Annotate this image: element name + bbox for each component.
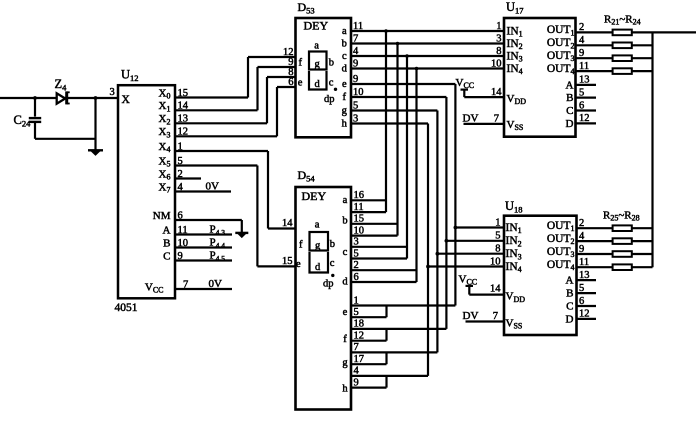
diode Z4 (zener) bbox=[57, 91, 70, 104]
wire: segment-e bus vertical bbox=[454, 84, 456, 306]
pin 6 of D53 (left) bbox=[277, 86, 296, 88]
resistor R22 bbox=[577, 44, 613, 46]
wire: X1 to D53 pin 9 bbox=[175, 109, 258, 111]
7-segment icon of D53 bbox=[298, 41, 337, 106]
wire: segment-a bus vertical bbox=[385, 31, 387, 212]
svg-text:DV: DV bbox=[463, 310, 479, 322]
wire: X3 to D53 pin 6 bbox=[175, 135, 277, 137]
svg-text:C: C bbox=[566, 301, 573, 313]
wire: segment-h bus vertical bbox=[427, 124, 429, 376]
wire: segment-g bus vertical bbox=[436, 111, 438, 353]
wire: segment-b bus vertical bbox=[396, 44, 398, 236]
svg-text:3: 3 bbox=[496, 33, 501, 44]
svg-text:0V: 0V bbox=[209, 278, 223, 290]
svg-text:e: e bbox=[296, 259, 301, 270]
wire: C to P4.5 bbox=[175, 259, 232, 261]
svg-text:A: A bbox=[163, 224, 171, 236]
wire: h-bus to IN4 of U18 bbox=[428, 265, 503, 267]
resistor R25 bbox=[577, 227, 613, 229]
svg-text:DV: DV bbox=[463, 112, 479, 124]
wire: B to P4.4 bbox=[175, 246, 232, 248]
svg-text:B: B bbox=[566, 92, 573, 104]
svg-text:OUT2: OUT2 bbox=[547, 37, 575, 50]
svg-text:OUT1: OUT1 bbox=[547, 24, 575, 37]
svg-text:g: g bbox=[342, 106, 348, 117]
svg-text:OUT2: OUT2 bbox=[547, 233, 575, 246]
wire: main input net from left edge to U12 pin X bbox=[0, 97, 118, 99]
svg-text:b: b bbox=[329, 58, 334, 69]
svg-text:a: a bbox=[343, 195, 348, 206]
svg-text:C: C bbox=[566, 105, 573, 117]
svg-text:h: h bbox=[342, 384, 348, 395]
wire: X5 to D54 pin 15 bbox=[175, 164, 257, 166]
svg-text:f: f bbox=[343, 92, 347, 103]
svg-text:15: 15 bbox=[282, 256, 293, 267]
ground (near Z4/U12) bbox=[88, 149, 103, 151]
wire: e-bus to IN1 of U18 bbox=[455, 226, 503, 228]
resistor R24 bbox=[577, 70, 613, 72]
svg-text:D: D bbox=[566, 118, 574, 130]
svg-text:b: b bbox=[342, 216, 347, 227]
driver U18 box bbox=[504, 216, 577, 335]
svg-text:b: b bbox=[342, 39, 347, 50]
driver U17 box bbox=[504, 18, 576, 137]
capacitor C24 bbox=[29, 98, 41, 139]
svg-text:14: 14 bbox=[491, 87, 502, 98]
wire: resistor output bus vertical bbox=[651, 32, 653, 267]
svg-text:b: b bbox=[330, 239, 335, 250]
svg-text:1: 1 bbox=[496, 21, 501, 32]
wire: X4 to D54 pin 14 bbox=[175, 150, 268, 152]
pin 9 of D53 (left) bbox=[258, 66, 297, 68]
svg-text:g: g bbox=[342, 358, 348, 369]
wire: C24 bottom to ground drop bbox=[35, 138, 96, 140]
resistor R26 bbox=[577, 240, 613, 242]
svg-text:g: g bbox=[315, 240, 321, 251]
svg-text:h: h bbox=[342, 119, 348, 130]
svg-text:OUT4: OUT4 bbox=[547, 259, 575, 272]
svg-text:8: 8 bbox=[496, 46, 501, 57]
resistor R23 bbox=[577, 57, 613, 59]
pin 12 of D53 (left) bbox=[248, 56, 296, 58]
svg-text:7: 7 bbox=[494, 113, 499, 124]
wire: X2 to D53 pin 8 bbox=[175, 122, 267, 124]
svg-text:NM: NM bbox=[153, 210, 171, 222]
svg-text:14: 14 bbox=[490, 284, 501, 295]
svg-text:X: X bbox=[122, 94, 131, 106]
svg-text:a: a bbox=[314, 41, 319, 52]
wire: A to P4.3 bbox=[175, 233, 232, 235]
node: junction at C24 top bbox=[33, 96, 37, 100]
resistor R27 bbox=[577, 253, 613, 255]
svg-text:OUT3: OUT3 bbox=[547, 50, 575, 63]
svg-text:B: B bbox=[566, 288, 573, 300]
ground (NM pin of U12) bbox=[235, 232, 248, 234]
svg-text:DEY: DEY bbox=[304, 19, 329, 33]
svg-text:A: A bbox=[566, 275, 574, 287]
svg-text:a: a bbox=[342, 26, 347, 37]
svg-text:c: c bbox=[329, 78, 334, 89]
display decoder D53 box bbox=[296, 18, 352, 137]
wire: VCC to pin 14 (VDD) of U18 bbox=[469, 294, 503, 296]
svg-text:dp: dp bbox=[323, 279, 334, 290]
node: bus junction dots on segment wires a-d bbox=[384, 29, 388, 33]
wire: NM to ground bbox=[175, 219, 242, 221]
svg-text:14: 14 bbox=[282, 218, 293, 229]
pin 8 of D53 (left) bbox=[267, 76, 296, 78]
wire: X0 to D53 pin 12 bbox=[175, 96, 248, 98]
wire: join pins 18+12 (segment f) bbox=[385, 329, 387, 341]
svg-text:10: 10 bbox=[491, 58, 502, 69]
wire: X7 to 0V bbox=[175, 190, 231, 192]
svg-text:c: c bbox=[330, 258, 335, 269]
wire: f-bus to IN2 of U18 bbox=[446, 240, 503, 242]
resistor R28 bbox=[577, 266, 613, 268]
resistor R21 bbox=[577, 31, 613, 33]
svg-text:0V: 0V bbox=[206, 180, 220, 192]
svg-text:f: f bbox=[343, 334, 347, 345]
op-amp U12 box (4051 multiplexer) bbox=[118, 85, 175, 298]
wire: g-bus to IN3 of U18 bbox=[437, 253, 503, 255]
svg-text:d: d bbox=[315, 79, 321, 90]
svg-text:d: d bbox=[342, 277, 348, 288]
wire: VCC to pin 14 (VDD) of U17 bbox=[464, 96, 504, 98]
svg-text:4051: 4051 bbox=[115, 302, 138, 314]
svg-text:a: a bbox=[315, 220, 320, 231]
svg-text:e: e bbox=[343, 307, 348, 318]
svg-text:g: g bbox=[315, 59, 321, 70]
svg-text:A: A bbox=[566, 80, 574, 92]
svg-text:d: d bbox=[342, 64, 348, 75]
pin 14 of D54 bbox=[268, 227, 295, 229]
svg-text:D: D bbox=[566, 314, 574, 326]
wire: join pins 4+9 (segment h) bbox=[385, 376, 387, 388]
svg-text:OUT1: OUT1 bbox=[547, 220, 575, 233]
svg-text:e: e bbox=[298, 78, 303, 89]
svg-text:c: c bbox=[342, 51, 347, 62]
wire: segment-c bus vertical bbox=[406, 56, 408, 259]
wire: segment-f bus vertical bbox=[445, 97, 447, 329]
svg-text:B: B bbox=[163, 237, 170, 249]
wire: segment-d bus vertical bbox=[415, 69, 417, 283]
wire: X6 stub bbox=[175, 177, 201, 179]
svg-text:f: f bbox=[299, 240, 303, 251]
svg-text:7: 7 bbox=[493, 311, 498, 322]
node: junction above ground drop bbox=[94, 96, 98, 100]
svg-text:OUT4: OUT4 bbox=[547, 63, 575, 76]
svg-text:3: 3 bbox=[110, 87, 115, 98]
svg-text:OUT3: OUT3 bbox=[547, 246, 575, 259]
pin 15 of D54 bbox=[257, 265, 295, 267]
svg-text:d: d bbox=[315, 262, 321, 273]
svg-text:dp: dp bbox=[324, 94, 335, 105]
wire: VCC pin to 0V bbox=[175, 288, 232, 290]
svg-text:c: c bbox=[343, 247, 348, 258]
wire: join pins 1+5 (segment e) bbox=[385, 306, 387, 318]
svg-text:DEY: DEY bbox=[302, 189, 327, 203]
svg-text:f: f bbox=[299, 58, 303, 69]
svg-text:e: e bbox=[342, 79, 347, 90]
svg-text:6: 6 bbox=[288, 77, 293, 88]
wire: drop to ground from node bbox=[94, 98, 96, 150]
display decoder D54 box bbox=[296, 187, 352, 410]
svg-text:C: C bbox=[163, 250, 170, 262]
wire: join pins 7+17 (segment g) bbox=[385, 352, 387, 364]
7-segment icon of D54 bbox=[296, 220, 335, 290]
